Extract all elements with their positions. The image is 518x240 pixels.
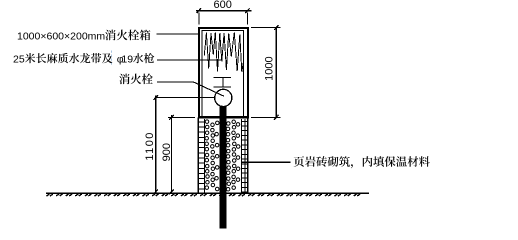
hose coil (25m hose scribble) bbox=[204, 32, 243, 72]
hydrant cabinet outer box bbox=[199, 28, 248, 117]
label: shale brick masonry with insulation fill bbox=[294, 156, 430, 168]
label: 25m hose and phi19 water gun bbox=[13, 53, 154, 65]
extension lines for 1000 dimension bbox=[251, 28, 281, 118]
svg-text:1000: 1000 bbox=[264, 56, 276, 80]
extension line for 900 (pedestal top) bbox=[168, 116, 195, 118]
dimension line 600 with oblique ticks bbox=[196, 8, 251, 13]
dimension text 1100 (rotated) bbox=[144, 131, 156, 160]
leader line: masonry note bbox=[242, 161, 291, 163]
hydrant cabinet bottom shelf bbox=[198, 117, 249, 119]
ground line bbox=[46, 192, 369, 194]
left brick column (shale brick) bbox=[198, 119, 205, 193]
ground hatching bbox=[47, 194, 361, 196]
hydrant valve circle bbox=[215, 89, 232, 106]
hydrant cabinet inner box bbox=[202, 31, 243, 116]
dimension line 1100 (left) bbox=[154, 95, 158, 194]
svg-text:1100: 1100 bbox=[144, 131, 156, 160]
riser stem and buried pipe bbox=[220, 106, 227, 228]
svg-text:600: 600 bbox=[214, 0, 232, 11]
leader line: hose/nozzle label bbox=[157, 59, 222, 61]
extension lines for 600 dimension bbox=[199, 13, 248, 25]
dimension line 900 (left) bbox=[169, 115, 173, 194]
stray dashed artifact after ji bbox=[111, 51, 113, 66]
svg-text:900: 900 bbox=[161, 143, 173, 161]
svg-text:19: 19 bbox=[121, 53, 133, 65]
svg-text:1000×600×200mm: 1000×600×200mm bbox=[17, 30, 105, 42]
leader line: hydrant label (with bend into valve) bbox=[157, 82, 224, 96]
dimension line 1000 (right side) bbox=[274, 25, 278, 120]
leader line: cabinet label bbox=[157, 33, 199, 35]
svg-text:25: 25 bbox=[13, 53, 25, 65]
extension line for 1100 (to hydrant center line) bbox=[156, 97, 220, 99]
right brick column (shale brick) bbox=[241, 119, 247, 193]
dimension text 1000 (rotated) bbox=[264, 56, 276, 80]
insulation fill (speckled circles) bbox=[205, 120, 240, 191]
dimension text 600 (top) bbox=[214, 0, 232, 11]
pedestal side walls bbox=[198, 118, 247, 194]
label: fire hydrant bbox=[119, 74, 153, 85]
water gun nozzle symbol bbox=[214, 78, 232, 88]
label: 1000x600x200mm fire hydrant cabinet bbox=[17, 30, 150, 43]
dimension text 900 (rotated) bbox=[161, 143, 173, 161]
